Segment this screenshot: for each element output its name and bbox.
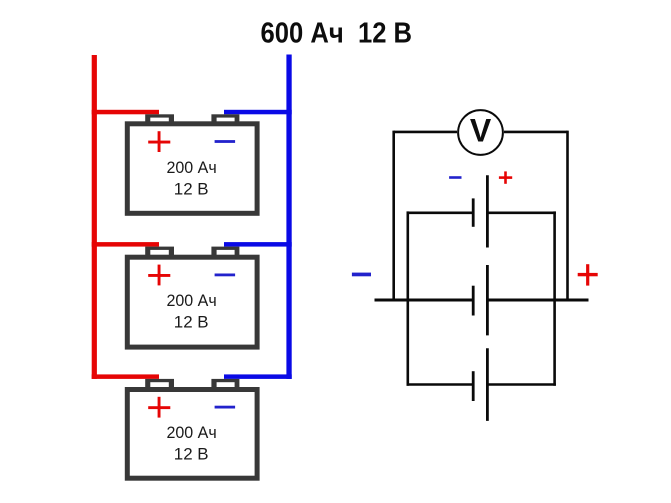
svg-text:600 Ач 12 В: 600 Ач 12 В: [261, 17, 413, 49]
svg-text:200 Ач: 200 Ач: [166, 424, 216, 442]
svg-text:200 Ач: 200 Ач: [166, 159, 216, 177]
svg-text:V: V: [470, 112, 492, 148]
svg-text:12 В: 12 В: [174, 314, 209, 332]
svg-text:12 В: 12 В: [174, 180, 209, 198]
svg-text:200 Ач: 200 Ач: [166, 292, 216, 310]
svg-text:12 В: 12 В: [174, 446, 209, 464]
